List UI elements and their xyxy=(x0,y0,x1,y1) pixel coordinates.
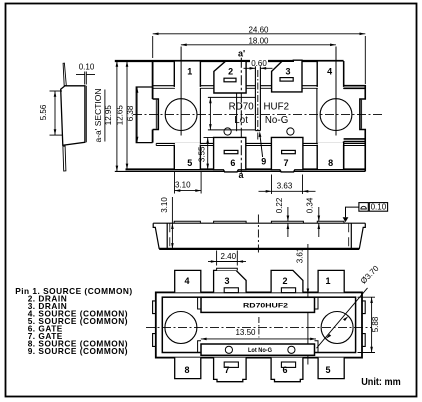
top view vertical centerline (package) xyxy=(257,70,259,141)
svg-text:1: 1 xyxy=(187,67,192,77)
svg-text:5: 5 xyxy=(187,158,192,168)
svg-text:0.60: 0.60 xyxy=(251,59,267,68)
a-a' section cut line xyxy=(240,58,242,176)
side view lead tab pins 1/5 xyxy=(174,221,200,223)
svg-text:18.00: 18.00 xyxy=(248,36,269,45)
top view pin 3 lead xyxy=(272,60,302,92)
svg-text:9: 9 xyxy=(261,157,266,167)
top view left edge xyxy=(152,61,154,143)
top view pin 1 lead xyxy=(174,61,200,89)
dimension 3.10 side view xyxy=(171,197,173,249)
top view horizontal centerline xyxy=(133,114,384,116)
top view lot mark circle left xyxy=(224,128,231,135)
svg-text:4: 4 xyxy=(184,276,189,286)
svg-text:RD70: RD70 xyxy=(229,102,255,113)
dimension texts top view xyxy=(250,59,268,66)
top view hole centerline right / 18.00 extension xyxy=(335,47,337,136)
svg-text:Unit: mm: Unit: mm xyxy=(361,376,401,388)
dimension 12.95 xyxy=(116,61,118,171)
top view left flange tab xyxy=(136,87,152,143)
top view marking recess frame xyxy=(208,96,255,98)
side view body outline xyxy=(153,223,365,249)
top view left notch xyxy=(153,99,159,130)
svg-text:0.34: 0.34 xyxy=(306,197,315,213)
svg-text:1: 1 xyxy=(325,276,330,286)
svg-text:5.56: 5.56 xyxy=(39,104,48,120)
section body xyxy=(61,86,87,146)
bottom view inner pocket rect xyxy=(162,297,355,352)
bottom view pin 7 xyxy=(214,358,247,382)
svg-text:3: 3 xyxy=(285,67,290,77)
svg-text:3.63: 3.63 xyxy=(277,181,293,190)
side view lead tab pins 2/6 xyxy=(214,221,247,223)
dimension 24.60 xyxy=(153,33,366,35)
dimension arrowheads top view xyxy=(116,33,366,193)
dimension 13.50 xyxy=(201,338,316,340)
svg-text:3.55: 3.55 xyxy=(198,146,207,162)
dimension 5.56 xyxy=(50,91,63,135)
svg-text:0.22: 0.22 xyxy=(275,197,284,213)
svg-text:0.10: 0.10 xyxy=(371,203,387,212)
svg-text:2: 2 xyxy=(282,276,287,286)
top view flange bottom edge xyxy=(115,170,365,172)
bottom view horizontal centerline xyxy=(146,326,372,328)
svg-text:6: 6 xyxy=(282,365,287,375)
dimension 5.88 xyxy=(358,297,376,352)
top view resin boundary vertical right (pins 4/8 inner edge) xyxy=(316,88,318,143)
svg-text:2: 2 xyxy=(228,67,233,77)
bottom view bottom resin bar xyxy=(201,344,315,355)
svg-text:5: 5 xyxy=(325,365,330,375)
svg-text:9. SOURCE (COMMON): 9. SOURCE (COMMON) xyxy=(28,346,128,356)
svg-text:12.65: 12.65 xyxy=(115,105,124,126)
bottom view pin 6 xyxy=(271,358,303,382)
top view flange surface lines lower xyxy=(156,142,365,144)
bottom view pin 4 xyxy=(175,270,201,292)
datum flag with 0.10 xyxy=(343,217,349,222)
top view center rib (pin 9) xyxy=(255,61,260,131)
bottom view vertical center dash xyxy=(258,317,260,338)
svg-text:2.40: 2.40 xyxy=(221,252,237,261)
dimension 0.10 section xyxy=(76,72,95,85)
top view pin 5 lead xyxy=(174,143,200,170)
side view vertical centerline xyxy=(257,215,259,253)
side view lead tab pins 3/7 xyxy=(271,221,303,223)
bottom view pin 5 xyxy=(318,358,344,379)
svg-text:24.60: 24.60 xyxy=(248,25,269,34)
dimension 3.55 xyxy=(207,138,209,170)
svg-text:8: 8 xyxy=(328,158,333,168)
top view mounting hole right xyxy=(320,99,352,131)
top view right edge xyxy=(344,61,366,171)
svg-text:7: 7 xyxy=(224,365,229,375)
svg-text:RD70HUF2: RD70HUF2 xyxy=(243,303,289,310)
top view body bottom edge (resin) xyxy=(126,168,366,170)
dimension 6.38 xyxy=(136,87,138,143)
bottom view corner tabs left xyxy=(153,301,366,347)
svg-text:HUF2: HUF2 xyxy=(263,102,289,113)
svg-text:3.10: 3.10 xyxy=(175,180,191,189)
svg-text:a-a' SECTION: a-a' SECTION xyxy=(93,88,103,142)
top view marking recess height dimension xyxy=(209,97,211,129)
bottom view mounting hole right xyxy=(321,312,353,344)
svg-text:6: 6 xyxy=(230,158,235,168)
svg-text:3.10: 3.10 xyxy=(160,197,169,213)
side view lead tab pins 4/8 xyxy=(317,221,344,223)
top view pin 6 lead xyxy=(214,137,246,172)
svg-text:0.10: 0.10 xyxy=(79,63,95,72)
svg-text:No-G: No-G xyxy=(265,115,289,126)
dimension O3.70 xyxy=(317,288,368,348)
top view pin 7 lead xyxy=(271,137,303,172)
bottom view lot circles xyxy=(225,346,232,353)
dimension 12.65 xyxy=(126,61,128,169)
bottom view pin 2 xyxy=(271,270,303,292)
svg-text:13.50: 13.50 xyxy=(235,328,256,337)
svg-text:4: 4 xyxy=(327,67,332,77)
dimension 3.61 xyxy=(307,244,309,294)
bottom view pocket steps xyxy=(198,297,318,352)
top view pin 8 lead xyxy=(317,143,343,170)
top view resin boundary vertical left (pins 1/5 inner edge) xyxy=(199,88,201,143)
bottom view pin 1 xyxy=(318,270,344,292)
svg-text:a': a' xyxy=(238,49,245,59)
section top lead xyxy=(63,63,66,86)
top view lot mark circle right xyxy=(287,128,294,135)
dimension 0.60 xyxy=(244,67,256,69)
svg-text:Lot No-G: Lot No-G xyxy=(248,348,272,354)
section bottom lead xyxy=(63,146,66,171)
bottom view mounting hole left xyxy=(165,312,197,344)
top view flange surface lines upper xyxy=(153,85,344,87)
top view hole centerline left / 18.00 extension xyxy=(180,47,182,136)
dimension 18.00 xyxy=(181,44,336,46)
top view marking recess inner vertical xyxy=(236,93,238,131)
svg-text:8: 8 xyxy=(184,365,189,375)
bottom view pin 3 xyxy=(214,268,247,292)
bottom view top resin bar xyxy=(201,297,315,312)
svg-text:5.88: 5.88 xyxy=(371,316,380,332)
svg-text:3: 3 xyxy=(224,276,229,286)
top view pin 2 lead xyxy=(214,61,246,93)
bottom view pin 8 xyxy=(175,358,201,379)
top view body top edge xyxy=(115,60,344,62)
dimension 3.63 top view xyxy=(271,175,273,195)
dimension 3.10 top view xyxy=(174,172,176,194)
svg-text:Lot: Lot xyxy=(234,115,248,126)
top view mounting hole left xyxy=(165,99,197,131)
svg-text:3.61: 3.61 xyxy=(296,247,305,263)
bottom view outer flange rect xyxy=(156,292,362,357)
dimension 2.40 xyxy=(208,251,246,266)
top view pin 4 lead xyxy=(317,61,343,89)
svg-text:7: 7 xyxy=(283,158,288,168)
svg-text:6.38: 6.38 xyxy=(126,105,135,121)
